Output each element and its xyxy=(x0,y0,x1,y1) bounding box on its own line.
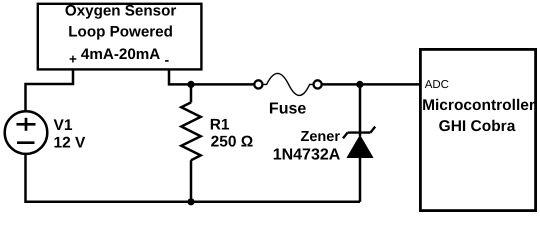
svg-text:R1: R1 xyxy=(210,116,230,133)
svg-text:Microcontroller: Microcontroller xyxy=(422,97,535,114)
svg-text:Fuse: Fuse xyxy=(269,100,306,117)
svg-text:-: - xyxy=(164,52,169,68)
svg-text:Loop Powered: Loop Powered xyxy=(68,23,173,40)
svg-text:ADC: ADC xyxy=(425,79,449,91)
svg-text:Zener: Zener xyxy=(301,129,341,145)
svg-text:GHI Cobra: GHI Cobra xyxy=(439,118,516,135)
svg-text:1N4732A: 1N4732A xyxy=(273,146,341,163)
svg-text:V1: V1 xyxy=(54,117,73,134)
svg-text:Oxygen Sensor: Oxygen Sensor xyxy=(65,3,177,20)
svg-text:4mA-20mA: 4mA-20mA xyxy=(81,46,160,63)
svg-text:250 Ω: 250 Ω xyxy=(211,133,254,150)
svg-text:+: + xyxy=(69,52,77,67)
svg-text:12 V: 12 V xyxy=(54,135,87,152)
